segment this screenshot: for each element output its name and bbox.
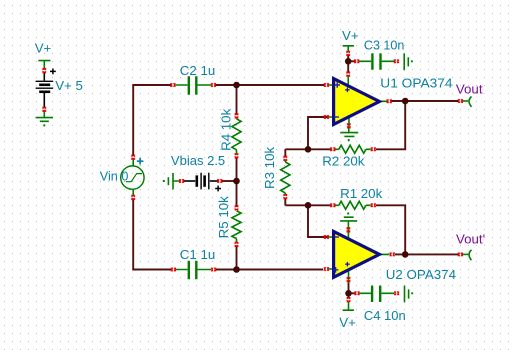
svg-text:C1 1u: C1 1u [180, 247, 215, 262]
svg-text:C2 1u: C2 1u [180, 63, 215, 78]
svg-text:V+: V+ [339, 315, 356, 330]
svg-text:R3 10k: R3 10k [262, 147, 277, 189]
svg-text:R4 10k: R4 10k [218, 108, 233, 150]
svg-text:Vout: Vout [456, 82, 483, 97]
svg-text:V+: V+ [35, 40, 52, 55]
svg-text:Vin 0: Vin 0 [100, 169, 129, 184]
svg-text:Vbias 2.5: Vbias 2.5 [171, 153, 225, 168]
svg-text:R1 20k: R1 20k [340, 186, 382, 201]
svg-text:V+ 5: V+ 5 [55, 78, 83, 93]
svg-text:C4 10n: C4 10n [364, 308, 406, 323]
svg-text:U2 OPA374: U2 OPA374 [386, 267, 456, 282]
svg-text:U1 OPA374: U1 OPA374 [380, 76, 452, 91]
svg-text:V+: V+ [342, 28, 359, 43]
svg-text:C3 10n: C3 10n [364, 38, 405, 53]
svg-text:Vout': Vout' [456, 232, 485, 247]
svg-text:R2 20k: R2 20k [322, 153, 364, 168]
svg-text:R5 10k: R5 10k [216, 196, 231, 238]
